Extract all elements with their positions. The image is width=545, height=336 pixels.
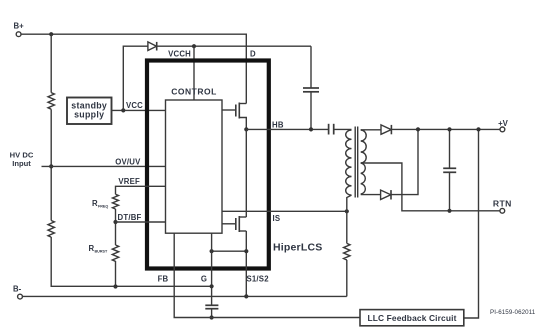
transformer core [354,127,356,198]
node D2 cathode / +V junction [416,127,420,131]
svg-text:CONTROL: CONTROL [171,87,217,97]
svg-text:DT/BF: DT/BF [118,213,142,222]
wire VREF column [116,186,166,194]
svg-text:VREF: VREF [118,177,140,186]
node S1/S2 to B- junction [244,294,248,298]
svg-text:HiperLCS: HiperLCS [273,242,322,254]
node VCCH [192,44,196,48]
capacitor output [443,129,456,210]
resistor upper divider [48,93,54,110]
node feedback +V tap [476,127,480,131]
node output cap RTN junction [447,209,451,213]
svg-text:VCCH: VCCH [168,50,191,59]
svg-text:Input: Input [12,159,31,168]
svg-text:+V: +V [498,119,509,128]
terminal RTN [493,198,512,213]
node G / signal ground [210,284,214,288]
transistor low-side MOSFET [222,216,246,232]
diode output D2 [381,190,391,199]
resistor lower divider [48,221,54,238]
capacitor VCCH-HB [303,46,319,129]
node FB bypass junction [210,315,214,319]
wire DT/BF pin [116,221,166,223]
svg-text:PI-6159-062011: PI-6159-062011 [490,309,536,316]
svg-text:FREQ: FREQ [98,204,108,208]
wire B- rail [22,295,347,297]
wire VCCH pin [193,46,195,100]
svg-text:HB: HB [272,121,284,130]
resistor current sense [344,243,350,260]
node S link right [244,249,248,253]
transistor high-side MOSFET [222,103,246,130]
svg-text:VCC: VCC [126,101,143,110]
wire IS line [222,210,347,212]
wire +V rail [391,128,500,130]
wire G-S link [212,250,247,252]
wire B+ rail [21,34,247,103]
standby supply block [67,98,112,125]
wire primary bottom lead [347,195,352,243]
op IC U1 HiperLCS outline [147,61,269,269]
wire RFREQ to DT/BF node [115,209,117,245]
node RBURST ground junction [113,284,117,288]
svg-text:G: G [201,274,207,283]
wire sense resistor to B- [346,260,348,297]
svg-text:supply: supply [74,109,104,119]
node VCC junction [121,108,125,112]
resistor RFREQ [92,194,119,209]
node OV/UV tap [49,164,53,168]
capacitor series resonant [329,124,352,135]
node DT/BF junction [113,220,117,224]
node HB junction [244,127,248,131]
wire HB line [246,128,328,130]
svg-text:BURST: BURST [95,249,108,253]
transformer T1 secondary [361,130,367,194]
svg-text:OV/UV: OV/UV [115,158,141,167]
wire G pin [211,233,213,305]
wire FB pin to feedback block [174,233,360,317]
node G link left [210,249,214,253]
svg-text:LLC Feedback Circuit: LLC Feedback Circuit [367,313,456,323]
terminal B+ [14,22,25,37]
wire secondary top lead [361,129,381,131]
transformer T1 primary [346,130,352,195]
node output cap +V junction [447,127,451,131]
svg-text:D: D [250,50,256,59]
svg-text:IS: IS [273,214,281,223]
svg-text:S1/S2: S1/S2 [247,274,270,283]
block LLC feedback circuit [360,310,464,326]
wire VCC [112,109,166,111]
wire secondary center tap to RTN [361,163,501,211]
diode VCCH supply [148,42,157,51]
wire VCCH rail [158,45,312,47]
wire feedback sense [464,129,479,318]
wire OV/UV divider column [51,34,212,286]
svg-text:FB: FB [158,274,169,283]
node IS sense junction [345,209,349,213]
terminal +V [498,119,509,132]
terminal B- [13,285,22,299]
node HB / VCCH cap junction [309,127,313,131]
resistor RBURST [89,244,119,262]
wire HV DC input / OV/UV [42,165,166,167]
control block [166,87,223,234]
wire secondary bottom lead [361,194,381,196]
wire D2 cathode to +V [391,129,418,194]
svg-text:B-: B- [13,285,22,294]
wire low-side source / S1S2 pin [245,231,247,296]
wire RBURST to ground line [115,261,117,287]
node B+ / divider junction [49,32,53,36]
wire HB to low-side drain [245,129,247,217]
svg-text:RTN: RTN [493,198,512,208]
diode output D1 [381,125,391,134]
svg-text:B+: B+ [14,22,25,31]
wire VCC to VCCH rail [123,46,148,110]
capacitor FB bypass [205,305,218,319]
